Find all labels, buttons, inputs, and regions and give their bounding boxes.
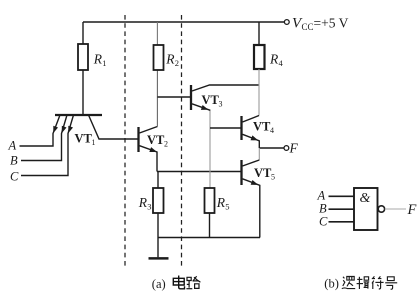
wire R2 top stem (gray)	[156, 22, 158, 45]
svg-text:B: B	[10, 154, 18, 168]
label R2	[165, 52, 179, 69]
svg-text:A: A	[8, 139, 17, 153]
wire VT1 emitter 2 to input B	[21, 115, 67, 161]
svg-text:2: 2	[164, 140, 168, 149]
resistor R3	[153, 188, 164, 213]
wire VT2 collector diagonal	[140, 127, 158, 134]
svg-text:R: R	[165, 52, 175, 67]
label VT3	[202, 93, 223, 109]
svg-text:1: 1	[92, 138, 96, 147]
label R5	[216, 195, 230, 212]
svg-text:B: B	[319, 202, 327, 216]
logic gate inputs	[329, 188, 407, 230]
terminal Vcc	[284, 20, 289, 25]
wire gate input C	[329, 221, 355, 223]
wire VT1 emitter 3 to input C	[21, 115, 74, 176]
wire VT1 emitter 1 to input A	[20, 115, 61, 146]
wire R1 bottom to VT1 base	[82, 70, 84, 114]
svg-text:&: &	[360, 191, 371, 206]
svg-text:3: 3	[219, 99, 223, 108]
wire bottom ground rail	[158, 237, 260, 239]
svg-text:VT: VT	[75, 132, 93, 146]
svg-text:(a): (a)	[152, 277, 166, 291]
wire VT1 collector to VT2 base	[89, 115, 138, 139]
label VT5	[254, 166, 275, 182]
caption hanzi dian (电)	[173, 276, 184, 289]
label R4	[269, 52, 284, 69]
svg-text:CC: CC	[302, 22, 314, 32]
svg-text:(b): (b)	[324, 277, 339, 291]
transistor VT4 base bar	[240, 116, 242, 140]
wire VT4 emitter diagonal	[243, 134, 260, 148]
label VT1	[75, 132, 96, 148]
arrow VT1 emitter 3	[68, 126, 73, 133]
label R3	[138, 195, 152, 212]
svg-text:VT: VT	[147, 133, 165, 147]
gate box U1	[354, 188, 378, 230]
dashed section divider right	[181, 15, 183, 266]
svg-text:4: 4	[270, 126, 274, 135]
transistor VT2 base bar	[137, 127, 139, 152]
wire gate output to F (gray)	[385, 208, 406, 210]
wire output node to terminal F	[259, 147, 284, 149]
caption hanzi lu (路)	[186, 276, 200, 289]
arrow VT4 emitter	[251, 135, 259, 140]
arrow VT5 emitter	[251, 180, 259, 185]
dashed section divider left	[124, 15, 126, 266]
label Vcc=+5V	[292, 16, 349, 33]
arrow VT1 emitter 1	[53, 126, 58, 133]
wire VT4 base line	[210, 127, 241, 129]
svg-text:A: A	[317, 189, 326, 203]
wire R3 top stem	[157, 172, 159, 189]
resistor R1	[78, 44, 88, 70]
wire VT5 collector diagonal	[243, 160, 260, 166]
wire VT3 emitter diagonal	[192, 104, 210, 111]
resistor R2	[154, 45, 164, 70]
arrow VT2 emitter	[149, 147, 157, 152]
ground	[149, 257, 169, 260]
resistor R5	[205, 188, 215, 213]
svg-text:5: 5	[271, 173, 275, 182]
svg-text:R: R	[138, 195, 148, 210]
label R1	[93, 52, 107, 69]
svg-text:F: F	[407, 202, 417, 218]
svg-text:C: C	[319, 215, 328, 229]
wire VT4 collector diagonal	[243, 116, 260, 123]
resistor R4	[254, 45, 265, 69]
wire ground stem	[157, 238, 159, 258]
svg-text:R: R	[269, 52, 279, 67]
caption hanzi fu (符)	[372, 276, 384, 289]
caption hanzi hao (号)	[385, 277, 397, 289]
wire R5 bottom stem	[209, 213, 211, 238]
wire Vcc top rail	[83, 21, 284, 23]
svg-text:R: R	[216, 195, 226, 210]
wire VT3 base tap	[157, 96, 190, 98]
wire VT2 collector to R2 (gray)	[156, 70, 158, 127]
wire R4 top stem	[258, 22, 260, 45]
label VT2	[147, 133, 168, 149]
wire VT2 emitter node to VT5 base	[157, 171, 241, 173]
svg-text:VT: VT	[202, 93, 220, 107]
svg-text:F: F	[289, 141, 299, 156]
caption hanzi ji (辑)	[357, 277, 370, 289]
wire R4 bottom stem (gray)	[258, 69, 260, 116]
arrow VT1 emitter 2	[62, 126, 67, 133]
transistor VT3 base bar	[190, 85, 192, 110]
svg-text:VT: VT	[254, 166, 272, 180]
terminal F	[284, 146, 289, 151]
label VT4	[253, 119, 274, 135]
wire VT5 collector vertical (gray)	[258, 148, 260, 160]
transistor VT1 multi-emitter base bar	[55, 114, 102, 116]
svg-text:=+5 V: =+5 V	[314, 16, 349, 31]
wire R3 bottom stem	[157, 213, 159, 238]
arrow VT3 emitter	[201, 105, 209, 110]
wire VT3 collector to R4 node	[192, 85, 259, 91]
svg-text:C: C	[10, 170, 19, 184]
wire gate input A	[329, 195, 355, 197]
svg-text:5: 5	[225, 202, 229, 212]
wire VT5 emitter to ground rail	[243, 179, 260, 238]
wire gate input B	[329, 208, 355, 210]
wire VT2 emitter diagonal	[140, 146, 158, 172]
svg-text:1: 1	[102, 58, 106, 68]
wire R1 top stem	[82, 22, 84, 44]
caption hanzi luo (逻)	[342, 277, 355, 289]
svg-text:3: 3	[147, 202, 151, 212]
svg-text:VT: VT	[253, 119, 271, 133]
svg-text:2: 2	[175, 58, 179, 68]
transistor VT5 base bar	[240, 160, 242, 185]
svg-text:R: R	[93, 52, 103, 67]
wire R5 top vertical from VT3 emitter (gray)	[209, 110, 211, 188]
gate output bubble	[378, 206, 384, 212]
